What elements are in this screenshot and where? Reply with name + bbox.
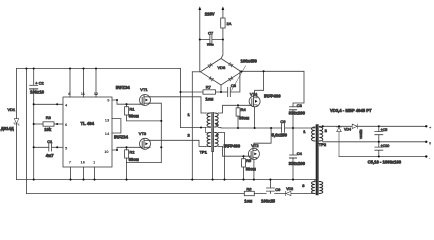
svg-text:36ом: 36ом (239, 116, 249, 121)
wire control rail x=33.7 (33, 69, 35, 180)
terminal dots AC input (198, 6, 224, 10)
wire aux rail x=26 (to bus2) (25, 69, 27, 194)
svg-text:C3: C3 (297, 103, 303, 108)
TR1 core (212, 113, 213, 152)
wire bridge minus to y92 (220, 85, 222, 92)
capacitor C4 (290, 151, 303, 180)
wire VT4 drain to +310 (255, 71, 264, 96)
TR1 primary bottom winding (207, 133, 210, 147)
svg-text:330x200: 330x200 (289, 161, 306, 166)
wire aux return bus y=193.5 (26, 193, 312, 195)
svg-text:R2: R2 (129, 150, 135, 155)
TR1 secondary bottom winding (215, 133, 218, 147)
capacitor C9 (266, 180, 281, 194)
svg-text:VD4: VD4 (344, 128, 351, 132)
wire TR1 centre tap y=127.5 (181, 127, 206, 129)
fuse 2A (221, 18, 232, 28)
svg-text:330x200: 330x200 (289, 110, 306, 115)
wire AC neutral vertical x=192.3 (191, 72, 193, 180)
capacitor C10 (375, 142, 390, 157)
transistor VT4 IRFP460 (249, 91, 260, 106)
wire VT3 drain to TR1 pin2 (150, 140, 206, 146)
wire VT1 drain to TR1 pin1 (150, 97, 206, 113)
svg-text:+C10: +C10 (381, 144, 390, 148)
svg-text:VD3,4 - МБР 4045 РТ: VD3,4 - МБР 4045 РТ (330, 108, 372, 113)
wire output minus y=156.5 (339, 156, 426, 158)
transistor VT3 IRFZ34 (139, 131, 151, 149)
TR2 primary winding (312, 127, 315, 141)
resistor R4 (236, 105, 246, 128)
svg-text:13: 13 (105, 118, 110, 123)
svg-text:IRFP460: IRFP460 (224, 143, 241, 148)
wire TR1 sec1 to VT4 gate (218, 105, 249, 113)
pin numbers left 4,6,5 (65, 102, 68, 150)
svg-text:1ом: 1ом (244, 199, 252, 204)
transformer T2 (ТР2 power transformer) (312, 125, 327, 195)
svg-text:IRFZ34: IRFZ34 (114, 135, 129, 140)
TR2 aux winding right (319, 182, 322, 194)
wire pin10 to VT3 gate (112, 147, 140, 150)
wire TL494 pin4 y=104.3 (34, 103, 63, 105)
TL494 bottom pin wires 7,16,1 (71, 167, 95, 180)
svg-text:R7: R7 (206, 84, 212, 89)
wire VT2 drain to midpoint (254, 128, 271, 148)
resistor R5 (242, 156, 252, 179)
resistor R7 (203, 84, 228, 94)
wire VT2 source to ground (253, 159, 255, 179)
pin numbers top (68, 91, 99, 96)
resistor R6 (244, 186, 254, 195)
capacitor C1 (34, 139, 63, 151)
diode bridge VD8 (200, 59, 241, 86)
svg-text:+ C2: + C2 (35, 81, 44, 86)
wire startup vertical x=180.5 (180, 69, 182, 128)
svg-text:C1: C1 (47, 139, 53, 144)
svg-text:C5,10 - 1000x100: C5,10 - 1000x100 (368, 160, 402, 165)
svg-text:C9: C9 (275, 187, 281, 192)
capacitor C3 (290, 103, 303, 155)
svg-text:14: 14 (105, 131, 110, 136)
svg-text:750в: 750в (207, 43, 214, 47)
svg-text:VT2: VT2 (251, 143, 259, 148)
svg-text:10k: 10k (44, 127, 52, 132)
wire VT4 source to midpoint (254, 107, 256, 128)
svg-text:VT3: VT3 (139, 131, 147, 136)
svg-text:10: 10 (104, 149, 109, 154)
wire output plus y=126.3 (319, 125, 426, 128)
svg-text:C6: C6 (280, 119, 286, 124)
wire TR2 aux to bus (312, 180, 315, 194)
transformer T1 (ТР1 driver transformer) (200, 113, 219, 155)
svg-text:R4: R4 (241, 107, 247, 112)
wire pin9 to VT1 gate (112, 100, 140, 104)
op-amp U1 TL494 box (63, 97, 112, 167)
wire left rail x=16.5 (VD1 branch) (16, 69, 18, 180)
diode VD2 (286, 187, 294, 196)
wire TR1 sec2 return to ground (218, 133, 224, 180)
capacitor C2 (30, 81, 45, 89)
winding stubs left (206, 113, 211, 146)
svg-text:5,0x250: 5,0x250 (272, 132, 288, 137)
resistor R2 (125, 147, 136, 179)
svg-text:ТР2: ТР2 (319, 142, 327, 147)
wire TR1 sec2 to VT2 gate (218, 146, 248, 156)
svg-text:68ом: 68ом (129, 114, 139, 119)
svg-text:C4: C4 (297, 151, 303, 156)
TR1 primary top winding (207, 113, 210, 127)
wire top VCC bus y=68.5 (17, 68, 181, 70)
svg-text:16: 16 (81, 160, 86, 165)
svg-text:12: 12 (94, 91, 99, 96)
svg-text:100x25: 100x25 (261, 199, 276, 204)
wire ground bus y=180 (17, 179, 317, 181)
resistor R3 (34, 115, 63, 126)
wire midpoint y=128 (255, 127, 312, 129)
capacitor C8 (228, 71, 240, 96)
svg-text:220V: 220V (205, 12, 215, 17)
wire TR1 sec1 return to midpoint (218, 127, 254, 130)
transistor VT1 IRFZ34 (140, 87, 151, 106)
wire bridge left corner link y=71.5 (192, 71, 200, 73)
wire pins 13-14 loop (112, 119, 121, 133)
label 100x450 with leader (232, 58, 258, 90)
wire bridge minus branch y=92 (181, 91, 204, 93)
TR1 secondary top winding (215, 113, 218, 127)
capacitor C7 X-cap (200, 31, 223, 45)
TR2 core (316, 125, 318, 195)
svg-text:R3: R3 (46, 115, 52, 120)
capacitor C6 series (280, 119, 286, 133)
pin numbers right 9,13,14,10 (104, 98, 110, 155)
svg-text:+C5: +C5 (381, 128, 388, 132)
transistor VT2 IRFP460 (248, 143, 259, 159)
TR2 aux winding left (312, 182, 315, 194)
svg-text:VT4: VT4 (250, 91, 258, 96)
svg-text:68ом: 68ом (129, 157, 139, 162)
wire R2/source return y=162.6 (127, 162, 162, 164)
svg-text:IRFP460: IRFP460 (264, 94, 281, 99)
pin numbers bottom (69, 160, 96, 165)
svg-text:100x450: 100x450 (241, 58, 258, 63)
zener diode VD1 (8, 107, 19, 125)
svg-text:ТР1: ТР1 (200, 149, 208, 154)
svg-text:R1: R1 (129, 107, 135, 112)
svg-text:IRFZ34: IRFZ34 (116, 85, 131, 90)
svg-text:2A: 2A (227, 21, 232, 26)
diode VD4 (337, 127, 351, 157)
svg-text:36ом: 36ом (246, 166, 256, 171)
output terminals (425, 125, 432, 160)
svg-text:Д814Д: Д814Д (1, 126, 14, 131)
wire output mid y=141.8 (323, 140, 427, 143)
svg-text:VD2: VD2 (286, 187, 293, 191)
wire VT1 source down (150, 103, 161, 162)
svg-text:VD1: VD1 (8, 107, 17, 112)
diode VD3 (352, 124, 363, 139)
capacitor C5 (375, 126, 388, 142)
svg-text:C8: C8 (231, 83, 237, 88)
wire AC input left line (199, 8, 201, 72)
TL494 top pin wires 8,11,12 (70, 69, 96, 98)
svg-text:КД213А: КД213А (359, 130, 363, 140)
TR2 secondary winding (319, 127, 322, 141)
svg-text:1ом: 1ом (205, 96, 213, 101)
resistor R1 (125, 104, 162, 121)
svg-text:VD8: VD8 (218, 65, 227, 70)
svg-text:TL 494: TL 494 (81, 121, 95, 126)
svg-text:VT1: VT1 (140, 87, 148, 92)
svg-text:100x16: 100x16 (30, 90, 45, 95)
wire TR1 core ground (212, 152, 214, 180)
svg-text:4м7: 4м7 (46, 153, 54, 158)
wire AC input right line (221, 8, 223, 58)
svg-text:C7: C7 (208, 31, 214, 36)
wire TR2 primary top stub (312, 127, 315, 128)
wire +310V rail y=71.3 (241, 71, 304, 106)
svg-text:R6: R6 (246, 186, 252, 191)
